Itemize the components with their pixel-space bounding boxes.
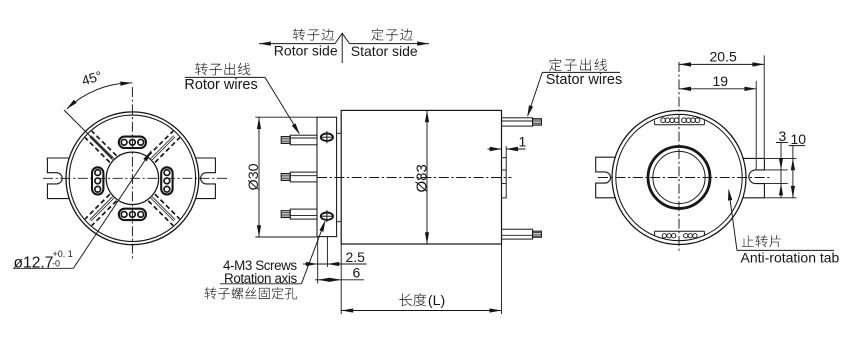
svg-text:1: 1 [519,134,527,150]
svg-text:Ø30: Ø30 [246,163,262,190]
svg-text:19: 19 [713,73,729,89]
svg-text:Stator side: Stator side [351,43,418,59]
svg-text:3: 3 [779,128,787,144]
svg-text:Anti-rotation tab: Anti-rotation tab [741,249,840,265]
svg-text:Rotor side: Rotor side [274,43,338,59]
svg-text:Rotor wires: Rotor wires [184,77,257,93]
svg-text:45°: 45° [80,68,104,88]
svg-text:-0: -0 [52,258,60,268]
svg-text:10: 10 [791,131,807,147]
svg-text:Ø83: Ø83 [413,164,430,192]
svg-text:2.5: 2.5 [346,249,366,265]
svg-text:ø12.7: ø12.7 [14,255,54,272]
svg-text:6: 6 [353,265,361,281]
svg-text:Stator wires: Stator wires [546,72,623,88]
svg-text:20.5: 20.5 [710,49,737,65]
svg-text:(L): (L) [428,293,445,309]
